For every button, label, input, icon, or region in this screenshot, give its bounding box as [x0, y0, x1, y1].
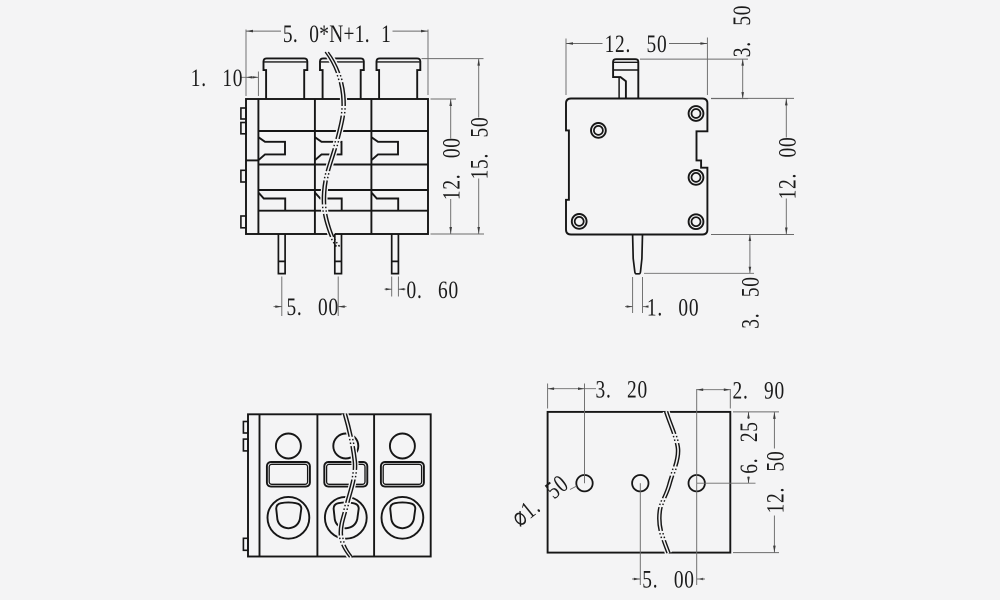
dimension 0.60 line: [385, 288, 392, 290]
top view left strip divider: [259, 414, 261, 556]
pcb layout outline: [548, 412, 731, 553]
front view solder pin 2: [335, 234, 342, 274]
dimension 1.00 extension lines: [632, 277, 634, 313]
front view solder pin 1: [278, 234, 285, 274]
dimension 12.50 line: [566, 43, 603, 45]
front view strip horizontal joint: [246, 159, 258, 161]
front view push button 2 cap inner line: [321, 61, 363, 63]
svg-text:5. 00: 5. 00: [286, 293, 338, 321]
dimension 2.90 line: [697, 389, 731, 391]
svg-text:3. 50: 3. 50: [728, 5, 756, 57]
front view body horizontal line 4: [258, 210, 428, 212]
dimension 0.60 extension lines: [391, 277, 393, 297]
svg-text:5. 00: 5. 00: [642, 565, 694, 593]
front view push button 3 cap inner line: [377, 61, 419, 63]
dimension 5.0*N+1.1 line: [246, 30, 281, 32]
svg-text:5. 0*N+1. 1: 5. 0*N+1. 1: [283, 20, 391, 48]
front view solder pin 3: [392, 234, 399, 274]
svg-text:2. 90: 2. 90: [733, 376, 785, 404]
front view body horizontal line 1: [258, 130, 428, 132]
side view release lever cap lines: [613, 69, 638, 71]
svg-text:1. 00: 1. 00: [647, 293, 699, 321]
top view left snap tab 1: [243, 422, 248, 434]
side view release lever: [613, 59, 638, 98]
dimension 3.20 line: [548, 388, 596, 390]
front view left mounting strip divider: [257, 99, 259, 234]
front view left snap tab 1: [241, 108, 246, 119]
pcb layout break line: [659, 411, 678, 553]
svg-text:12. 00: 12. 00: [773, 137, 801, 200]
dimension 3.50 bottom line: [749, 235, 751, 274]
pcb drill hole 2: [632, 475, 648, 491]
dimension 5.00 pcb extension lines: [639, 483, 641, 585]
dimension 3.50 top extension lines: [640, 58, 748, 60]
dimension 15.50 extension line: [422, 58, 484, 60]
front view push button 1: [264, 58, 308, 99]
svg-text:12. 50: 12. 50: [605, 30, 668, 58]
dimension 5.00 extension lines: [281, 277, 283, 317]
dimension 5.0*N+1.1 extension lines: [245, 30, 247, 97]
front view break line: [324, 52, 344, 247]
svg-text:12. 50: 12. 50: [761, 451, 789, 514]
top view left snap tab 3: [243, 538, 248, 550]
front view left snap tab 3: [241, 170, 246, 182]
pcb drill hole 3: [689, 475, 705, 491]
front view wire clamp funnel lower pole 2: [315, 193, 342, 211]
front view left snap tab 4: [241, 216, 246, 228]
svg-text:1. 10: 1. 10: [191, 63, 243, 91]
front view body horizontal line 2: [258, 164, 428, 166]
dimension 3.50 top line: [742, 59, 744, 99]
dimension 12.00 side line: [785, 98, 787, 137]
front view push button 2: [320, 58, 364, 99]
dimension 5.00 pcb line: [632, 578, 640, 580]
dimension 6.25 extension lines: [733, 411, 779, 413]
front view wire clamp funnel lower pole 3: [371, 193, 398, 211]
side view mounting hole bottom-right: [689, 214, 704, 229]
front view push button 3: [377, 58, 421, 99]
dimension 12.00 front extension lines: [431, 98, 457, 100]
side view body outline: [566, 99, 707, 235]
svg-text:0. 60: 0. 60: [407, 275, 459, 303]
dimension 5.00 line: [274, 306, 282, 308]
top view body outline: [248, 414, 431, 556]
side view solder pin: [633, 235, 643, 274]
dimension 2.90 extension lines: [696, 389, 698, 483]
side view mounting hole left-upper: [591, 123, 606, 138]
side view mounting hole bottom-left: [572, 214, 587, 229]
dimension 1.00 line: [625, 306, 633, 308]
dimension 3.20 extension lines: [547, 384, 549, 409]
front view wire clamp funnel lower pole 1: [258, 193, 285, 211]
dimension 3.50 bottom extension line: [644, 272, 754, 274]
dimension 12.00 side extension lines: [711, 97, 794, 99]
dimension 1.10 extension line: [257, 72, 259, 97]
front view wire clamp funnel upper pole 3: [371, 137, 398, 160]
top view pole 1 button hole, wire entry and clamp cavity: [267, 434, 310, 539]
front view body outline: [246, 99, 428, 234]
front view pole divider 1: [314, 99, 316, 234]
top view pole divider 2: [373, 414, 375, 556]
top view left snap tab 2: [243, 439, 248, 451]
front view push button 1 cap inner line: [264, 61, 306, 63]
top view pole divider 1: [316, 414, 318, 556]
svg-text:3. 50: 3. 50: [736, 276, 764, 328]
dimension 12.50 extension lines: [565, 39, 567, 96]
svg-text:15. 50: 15. 50: [465, 117, 493, 180]
svg-text:12. 00: 12. 00: [437, 137, 465, 200]
svg-text:6. 25: 6. 25: [735, 421, 763, 473]
side view mounting hole top-right: [689, 106, 704, 121]
diameter 1.50 leader line: [570, 486, 577, 490]
front view wire clamp funnel upper pole 1: [258, 137, 285, 160]
dimension 6.25 line: [748, 412, 750, 419]
dimension 15.50 line: [478, 59, 480, 118]
dimension 12.50 pcb line: [773, 412, 775, 449]
top view pole 2 button hole, wire entry and clamp cavity: [324, 434, 367, 539]
dimension 12.00 front line: [450, 99, 452, 139]
svg-text:3. 20: 3. 20: [596, 375, 648, 403]
dimension 12.50 pcb extension line: [733, 552, 779, 554]
pcb drill hole 1: [576, 475, 592, 491]
front view pole divider 2: [370, 99, 372, 234]
dimension 1.10 line: [241, 76, 259, 78]
front view body horizontal line 3: [258, 189, 428, 191]
top view break line: [341, 414, 355, 558]
side view mounting hole right-middle: [689, 170, 704, 185]
top view pole 3 button hole, wire entry and clamp cavity: [381, 434, 424, 539]
front view wire clamp funnel upper pole 2: [315, 137, 342, 160]
front view left snap tab 2: [241, 123, 246, 134]
